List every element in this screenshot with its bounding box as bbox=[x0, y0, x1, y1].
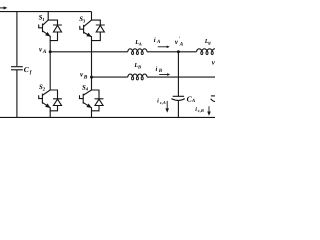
leg A: wire from top rail into S1 bbox=[47, 12, 49, 21]
transistor S2 (IGBT with freewheeling diode) bbox=[39, 90, 62, 111]
wire vA to LA bbox=[50, 51, 128, 53]
wire vpA to Lg bbox=[178, 51, 196, 53]
wire S3 emitter to node vB bbox=[91, 41, 93, 78]
transistor S3 (IGBT with freewheeling diode) bbox=[80, 20, 105, 40]
svg-text:B: B bbox=[137, 65, 141, 70]
leg B: top rail corner down into S3 bbox=[91, 12, 93, 21]
svg-text:3: 3 bbox=[82, 18, 86, 24]
wire S2 emitter to bottom rail bbox=[49, 111, 51, 118]
wire LA to vpA bbox=[147, 51, 178, 53]
svg-text:c,B: c,B bbox=[198, 108, 204, 113]
capacitor CA bbox=[171, 96, 184, 117]
current arrow icA bbox=[166, 101, 168, 109]
wire S4 emitter to bottom rail bbox=[91, 111, 93, 118]
svg-text:i: i bbox=[154, 37, 156, 44]
svg-text:f: f bbox=[30, 70, 33, 76]
transistor S4 (IGBT with freewheeling diode) bbox=[80, 90, 104, 111]
svg-text:B: B bbox=[158, 68, 163, 74]
top dc rail bbox=[0, 11, 92, 13]
svg-text:i: i bbox=[156, 66, 158, 73]
svg-text:g: g bbox=[207, 40, 211, 45]
svg-text:A: A bbox=[179, 42, 184, 48]
wire vB to LB bbox=[92, 76, 128, 78]
inductor LB bbox=[128, 74, 147, 77]
wire vB down into S4 bbox=[91, 77, 93, 90]
input current arrow bbox=[0, 7, 4, 9]
svg-text:A: A bbox=[42, 49, 47, 55]
wire S1 emitter to node vA bbox=[49, 41, 51, 52]
current arrow iB bbox=[159, 74, 167, 76]
wire vA down into S2 bbox=[49, 52, 51, 90]
svg-text:A: A bbox=[156, 39, 161, 45]
node vpA bbox=[177, 50, 180, 53]
transistor S1 (IGBT with freewheeling diode) bbox=[39, 20, 62, 40]
svg-text:2: 2 bbox=[42, 86, 46, 92]
current arrow iA bbox=[158, 46, 167, 48]
wire vpA down to CA bbox=[177, 52, 179, 97]
svg-text:C: C bbox=[24, 65, 29, 74]
capacitor Cf bbox=[11, 67, 23, 118]
bottom rail bbox=[0, 116, 215, 118]
left dc rail (upper) bbox=[16, 12, 18, 67]
svg-text:c,A: c,A bbox=[160, 100, 166, 105]
wire LB to right edge bbox=[147, 76, 215, 78]
svg-text:1: 1 bbox=[42, 17, 44, 23]
svg-text:A: A bbox=[138, 41, 142, 46]
capacitor CB (cropped at right edge) bbox=[211, 96, 216, 102]
inductor LA bbox=[128, 49, 147, 52]
inductor Lg bbox=[197, 49, 218, 52]
node vB bbox=[90, 76, 93, 79]
svg-text:B: B bbox=[83, 74, 88, 80]
current arrow icB bbox=[208, 106, 210, 112]
svg-text:A: A bbox=[191, 98, 196, 104]
svg-text:i: i bbox=[157, 98, 159, 105]
node vA bbox=[49, 50, 52, 53]
